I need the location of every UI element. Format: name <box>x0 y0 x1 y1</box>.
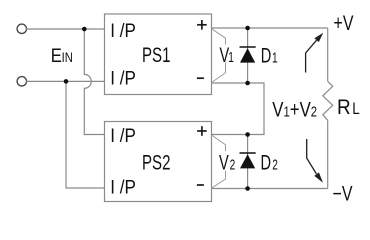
label EIN <box>51 45 73 67</box>
wire PS2 - output to -V rail <box>212 188 328 190</box>
wire right rail lower <box>327 120 329 188</box>
junction dot D2 top <box>245 132 250 137</box>
svg-text:I /P: I /P <box>110 68 136 89</box>
wire bottom junction down to PS2 lower I/P <box>66 81 105 188</box>
junction dot D1 top <box>245 26 250 31</box>
svg-text:1: 1 <box>228 49 234 65</box>
svg-text:2: 2 <box>272 157 278 173</box>
junction dot D2 bottom <box>245 186 250 191</box>
box PS1 <box>105 14 212 95</box>
resistor RL zigzag <box>323 81 333 120</box>
plus sign PS2 <box>197 126 207 136</box>
wire diode D2 branch <box>247 135 249 189</box>
svg-text:I /P: I /P <box>110 20 136 41</box>
label V2 <box>219 150 235 175</box>
wire bottom terminal to PS1 lower I/P <box>26 80 105 82</box>
arrow to +V <box>306 33 324 73</box>
svg-text:V1+V2: V1+V2 <box>272 98 317 121</box>
junction dot bottom wire <box>64 79 69 84</box>
wire top terminal to PS1 upper I/P <box>26 28 105 30</box>
svg-text:−V: −V <box>333 181 353 205</box>
wire right rail upper <box>327 28 329 81</box>
label D1 <box>261 42 278 67</box>
junction dot top wire <box>82 27 87 32</box>
wire PS1 + output to +V rail <box>212 27 328 29</box>
wire PS1 - to PS2 + series link <box>212 83 265 135</box>
minus sign PS1 <box>197 77 204 79</box>
svg-text:2: 2 <box>230 157 236 173</box>
svg-text:E: E <box>51 45 62 67</box>
svg-text:I /P: I /P <box>110 125 136 146</box>
terminal T2 (lower input) <box>17 77 26 86</box>
box PS2 <box>105 122 212 202</box>
svg-text:R: R <box>337 96 351 119</box>
svg-text:PS1: PS1 <box>142 42 170 66</box>
wire diode D1 branch <box>247 28 249 83</box>
minus sign PS2 <box>197 184 204 186</box>
svg-text:1: 1 <box>272 50 278 66</box>
svg-text:IN: IN <box>62 50 73 65</box>
V2 bracket <box>212 135 226 188</box>
junction dot D1 bottom <box>245 81 250 86</box>
label V1 <box>220 42 234 67</box>
diode D1 <box>240 47 256 63</box>
terminal T1 (upper input) <box>17 24 26 33</box>
svg-text:+V: +V <box>334 11 354 35</box>
wire top junction down with hop to PS2 upper I/P <box>84 29 104 135</box>
diode D2 <box>240 153 256 168</box>
plus sign PS1 <box>197 20 207 30</box>
svg-text:V: V <box>219 150 229 175</box>
svg-text:I /P: I /P <box>110 177 136 198</box>
svg-text:D: D <box>261 149 272 174</box>
label D2 <box>261 149 278 174</box>
svg-text:L: L <box>352 100 360 119</box>
svg-text:PS2: PS2 <box>142 150 170 174</box>
V1 bracket <box>212 29 226 83</box>
svg-text:D: D <box>261 42 272 67</box>
arrow to -V <box>307 139 323 183</box>
